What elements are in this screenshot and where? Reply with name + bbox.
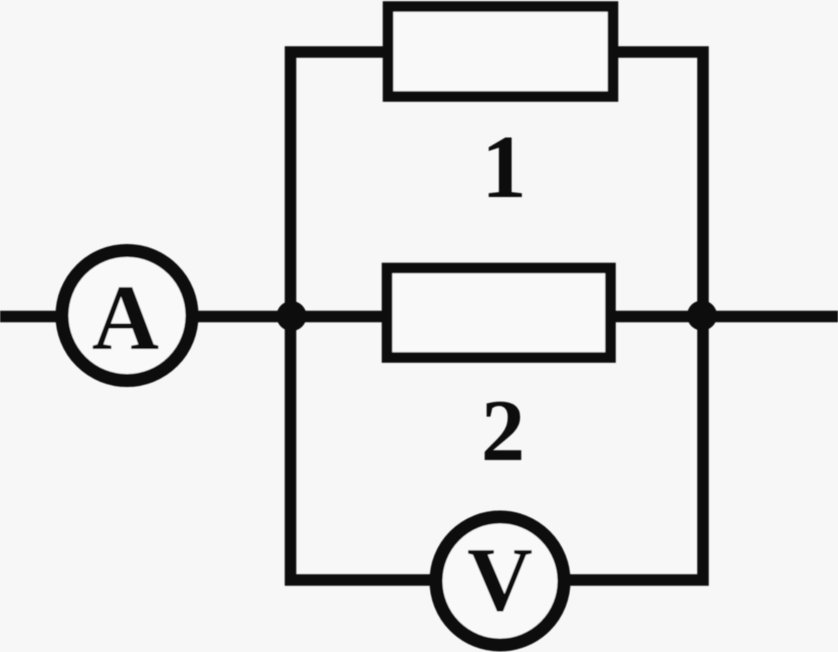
svg-text:A: A	[92, 267, 159, 370]
node: right junction dot	[687, 301, 717, 331]
wire: top-right branch (from resistor R1 right, to corner, down right vertical, bottom-right corner to voltmeter)	[570, 52, 703, 580]
resistor R1 (top branch)	[388, 7, 613, 97]
node: left junction dot	[277, 301, 307, 331]
voltmeter U2 circle	[436, 517, 564, 645]
wire: resistor R2 to right junction	[613, 311, 708, 323]
resistor R2 (middle branch)	[387, 268, 611, 358]
wire: left junction to resistor R2	[286, 311, 385, 323]
svg-text:1: 1	[482, 118, 527, 217]
wire: ammeter to left junction node	[192, 311, 296, 323]
wire: right junction to right edge	[697, 311, 838, 323]
svg-text:2: 2	[481, 383, 525, 480]
wire: top-left branch (corner from resistor R1 left, down left vertical, to bottom-left corner)	[291, 52, 431, 580]
svg-text:V: V	[467, 529, 533, 630]
wire: main left segment into ammeter	[0, 311, 62, 323]
ammeter U1 circle	[62, 251, 192, 381]
